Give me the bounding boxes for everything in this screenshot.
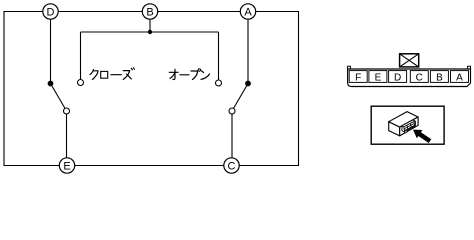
switch SW1 arm xyxy=(51,84,67,112)
pin E cell xyxy=(369,71,387,84)
wire inner left vertical xyxy=(80,32,82,80)
svg-text:A: A xyxy=(244,7,252,19)
label "open" katakana o-pu-n xyxy=(169,69,209,80)
wire SW1 throw to E xyxy=(66,111,68,166)
pin B cell xyxy=(430,71,448,84)
terminal circle OPEN contact xyxy=(216,80,222,86)
svg-text:D: D xyxy=(47,7,55,19)
svg-text:B: B xyxy=(436,72,443,83)
wire B down to junction xyxy=(149,12,151,33)
pin A cell xyxy=(451,71,469,84)
connector unit socket detail xyxy=(402,120,416,133)
wire outer loop xyxy=(4,12,299,166)
pin D cell xyxy=(389,71,407,84)
svg-text:E: E xyxy=(375,72,382,83)
connector unit 3D icon xyxy=(389,112,418,136)
svg-text:F: F xyxy=(355,72,361,83)
svg-text:C: C xyxy=(228,161,236,173)
connector tab right xyxy=(468,66,471,69)
node D xyxy=(43,4,58,19)
wire D-B top segment xyxy=(51,11,151,13)
switch SW2 throw contact (open) xyxy=(229,108,235,114)
wire A down to switch pole xyxy=(247,12,249,84)
wire SW2 throw to C xyxy=(231,111,233,166)
label "close" katakana ku-ro-zu xyxy=(90,68,134,80)
switch SW1 pole contact (filled) xyxy=(48,81,54,87)
node E xyxy=(59,158,74,173)
node A xyxy=(240,4,255,19)
terminal circle CLOSE contact xyxy=(78,80,84,86)
switch SW2 pole contact (filled) xyxy=(245,81,251,87)
svg-text:D: D xyxy=(394,72,401,83)
connector pinout: mating face cavity (crossed box) xyxy=(400,54,419,67)
node C xyxy=(224,158,239,173)
svg-text:C: C xyxy=(416,72,423,83)
wire D down to switch pole xyxy=(50,12,52,84)
svg-text:A: A xyxy=(456,72,463,83)
switch SW2 arm xyxy=(232,84,248,112)
wire inner rect top xyxy=(81,31,219,33)
pin C cell xyxy=(410,71,428,84)
wire inner right vertical xyxy=(218,32,220,80)
wire B-A top segment xyxy=(150,11,248,13)
connector body outline xyxy=(348,69,471,87)
node B xyxy=(142,4,157,19)
legend box frame xyxy=(371,106,444,144)
switch SW1 throw contact (open) xyxy=(64,108,70,114)
pin F cell xyxy=(349,71,367,84)
connector tab left xyxy=(348,66,351,69)
svg-text:B: B xyxy=(146,7,153,19)
legend arrow xyxy=(413,130,431,143)
junction dot under B xyxy=(148,30,152,34)
svg-text:E: E xyxy=(63,161,70,173)
